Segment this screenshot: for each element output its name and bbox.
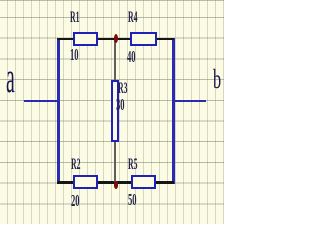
node a (terminal label) [6, 57, 15, 101]
wire middle vertical upper (junction to R3 pin) [114, 40, 117, 81]
wire terminal a stub [24, 100, 59, 103]
resistor R5 body [131, 175, 157, 189]
designator R5 [128, 157, 137, 173]
resistor R1 body [73, 32, 98, 46]
value 40 [127, 48, 136, 65]
value 20 [71, 192, 80, 209]
wire top horizontal run (node between a-branch top resistors) [57, 38, 174, 41]
wire right vertical [172, 38, 175, 184]
value 10 [70, 46, 79, 63]
resistor R4 body [130, 32, 157, 46]
node b (terminal label) [213, 66, 221, 93]
wire middle vertical lower (R3 pin to junction) [114, 141, 117, 183]
junction dot bottom (red) [114, 181, 118, 188]
resistor R3 body (vertical) [111, 80, 119, 142]
junction dot top (red) [114, 34, 118, 43]
designator R1 [70, 10, 79, 26]
wire bottom horizontal run [57, 181, 174, 184]
wire left vertical [57, 38, 60, 184]
value 50 [128, 191, 137, 208]
designator R3 [118, 81, 127, 97]
designator R2 [71, 157, 80, 173]
resistor R2 body [73, 175, 98, 189]
wire terminal b stub [172, 100, 206, 103]
value 30 [116, 96, 125, 113]
designator R4 [128, 10, 137, 26]
